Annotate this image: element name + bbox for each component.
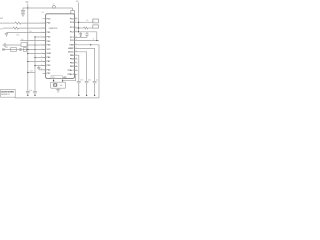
wire cross link y=72.5 [28,72,35,74]
wire +5V vertical x=27.8 [27,4,29,92]
box component (21,43.0) [21,43,27,47]
wire pin8 long row y=49.5 [2,49,46,51]
title block box [1,90,16,98]
wire pin20 row y=51.8 corner [78,52,87,81]
junction dot (78.8,95.4) [78,95,79,96]
wire pin10 row y=57.5 [35,57,46,59]
junction dot (35,57.5) [34,57,35,58]
svg-text:AREF: AREF [68,47,74,50]
wire box to U1 y=45.0 [27,44,46,46]
svg-text:27: 27 [75,21,77,23]
capacitor C at (35,92) [33,91,37,95]
wire +5V vertical x=78.5 [78,2,80,31]
wire vertical x=96.8 [96,32,98,41]
svg-text:100n: 100n [80,79,83,81]
U1 right pin numbers [75,18,77,72]
junction dot (94.6,95.4) [94,95,95,96]
junction dot (27.8,53.5) [27,53,28,54]
svg-text:22: 22 [75,44,77,46]
junction dot (27.8,49.5) [27,49,28,50]
wire RX row y=23.1 [3,22,15,24]
U1 right pins [75,19,78,74]
svg-text:28: 28 [75,18,77,20]
small box right edge (92.8,23.8) [93,25,99,28]
svg-text:GND: GND [69,44,74,46]
svg-text:5V: 5V [53,3,55,5]
circle component (20.5,49.5) [20,49,22,51]
wire pin21 row y=48.4 corner [78,48,95,81]
capacitor C at (27.8,92) [26,91,30,95]
svg-text:RESET/PC6: RESET/PC6 [49,28,58,30]
box component (23.5,47.6) [24,48,27,52]
svg-text:17: 17 [75,62,77,64]
svg-text:ARDUINO SEVERINO: ARDUINO SEVERINO [1,91,14,94]
svg-text:100n: 100n [16,34,20,36]
svg-text:PD2: PD2 [47,37,51,39]
svg-text:10k: 10k [86,20,88,22]
svg-text:10k: 10k [29,31,32,33]
U1 inner right pin labels [67,18,74,75]
capacitor at x=87 [85,32,88,38]
power node circle (54,6.9) [53,6,56,9]
svg-text:AVCC: AVCC [68,50,74,53]
svg-text:XT2: XT2 [63,77,66,79]
junction dot (35,37.0) [34,36,35,37]
svg-text:XTAL1: XTAL1 [67,69,74,72]
svg-text:23: 23 [75,39,77,41]
IC U1 body [46,14,75,79]
capacitor C at (78.8,82) [77,81,81,95]
svg-text:16M: 16M [60,85,64,87]
connector plates at x=3 [3,48,4,51]
svg-text:RX: RX [0,23,3,25]
U1 left pins [43,19,46,74]
svg-text:25: 25 [75,31,77,33]
svg-text:PC6: PC6 [47,18,51,20]
wire pin13 row y=69.8 [39,69,46,71]
junction dot (78.5,28.0) [78,27,79,28]
capacitor C at (86.6,82) [85,81,89,95]
wire XTAL2 to right pin [63,74,76,80]
junction dot (96.8,40.5) [96,40,97,41]
junction dot (53.6,80.7) [53,80,54,81]
wire R3 to box [88,27,93,29]
wire pin5 row y=37.0 [35,36,46,38]
wire pin11 row y=61.5 [28,61,46,63]
junction dot (62.6,80.7) [62,80,63,81]
junction dot (35,45.0) [34,44,35,45]
wire pin27 row y=22.3 to box [78,21,93,23]
svg-text:M1: M1 [0,18,3,20]
svg-text:VCC: VCC [47,49,52,51]
capacitor C at (23,11) [21,11,25,14]
svg-text:PD3: PD3 [47,41,51,43]
svg-text:PD7: PD7 [47,73,51,75]
capacitor C below wire at (10,34) [5,33,8,37]
junction dot at (27.8,8) [27,7,28,8]
resistor R1 zigzag [15,22,21,24]
junction dot (27.8,61.5) [27,61,28,62]
box component (10.5,47.7) [11,48,17,52]
junction dot (27.8,95.4) [27,95,28,96]
wire pin6 row y=40.6 [20,40,45,42]
junction dot (78.5,31.8) [78,31,79,32]
wire TX row y=28.1 [3,27,13,29]
U1 left pin numbers [41,18,43,71]
wire vertical x=35 [34,37,36,91]
svg-text:26: 26 [75,27,77,29]
wire pin7 row y=45.0 with series cap [2,43,21,46]
wire XTAL2 stub down [62,78,64,82]
svg-text:18: 18 [75,58,77,60]
wire branch left y=8 [23,8,28,10]
wire pin24 row y=37.4 [78,36,88,38]
svg-text:PD6: PD6 [47,69,51,71]
svg-text:XT1: XT1 [52,77,55,79]
wire R1 to U1 [21,22,46,24]
wire pin22 row y=44.8 long with corner [78,45,100,98]
wire pin19 row y=55.2 corner [78,55,79,81]
junction dot (78.5,22.3) [78,22,79,23]
LED D1 symbol at x=80.7 [80,32,82,38]
svg-text:PD0: PD0 [47,23,51,25]
capacitor C at (38.8,68) [37,66,40,70]
wire pin26 row y=28.0 [78,27,84,29]
wire pin12 row y=65.6 [35,65,46,67]
wire pin9 row y=53.5 [28,53,46,55]
crystal Q1 symbol [53,83,57,86]
svg-text:1: 1 [41,18,42,20]
svg-text:20: 20 [75,51,77,53]
wire pin4 row y=32.6 [6,32,45,34]
svg-text:IC1: IC1 [42,12,45,14]
svg-text:19: 19 [75,54,77,56]
wire pin25 row y=31.8 [78,31,97,33]
ground symbol (23,15) [21,14,25,16]
junction dot (35,65.6) [34,65,35,66]
wire ground stub [57,88,59,89]
junction dot (35,49.5) [34,49,35,50]
wire XTAL1 stub down [53,78,55,82]
svg-text:PB6: PB6 [47,57,51,59]
svg-text:24: 24 [75,36,77,38]
wire down into AVCC box [72,8,74,11]
svg-text:1k: 1k [93,38,95,40]
svg-text:XTAL2: XTAL2 [67,73,74,76]
svg-text:5V: 5V [26,2,29,4]
svg-text:GND: GND [47,53,52,55]
wire R2 to U1 [19,27,46,29]
svg-text:100n: 100n [88,79,91,81]
ground symbol (58.1,90.5) [56,90,60,92]
junction dot (86.6,95.4) [86,95,87,96]
U1 inner left pin labels [47,18,52,75]
junction dot (35,95.4) [34,95,35,96]
U1 XTAL1 label box [51,76,62,79]
svg-text:PB7: PB7 [47,61,51,63]
wire +5V horizontal y=8 [28,7,73,9]
svg-text:TX: TX [0,28,3,30]
svg-text:REVISION 2.0: REVISION 2.0 [1,94,9,96]
box at IC top (AVCC) [71,11,75,14]
svg-text:100n: 100n [30,71,33,73]
svg-text:16: 16 [75,65,77,67]
bottom rail line y=97.9 [15,97,99,99]
svg-text:10u: 10u [96,79,99,81]
svg-text:15: 15 [75,69,77,71]
capacitor C at (94.6,82) [93,81,97,95]
connector box right (92.8,19.0) [93,19,99,23]
crystal circuit box [51,82,66,88]
resistor R3 zigzag [84,27,88,29]
wire pin23 row y=40.5 [78,40,100,42]
svg-text:22p: 22p [21,39,24,41]
svg-text:100n: 100n [29,90,32,92]
junction dot (27.8,72.5) [27,72,28,73]
svg-text:21: 21 [75,47,77,49]
junction dot (90.7,44.8) [90,44,91,45]
resistor R2 zigzag [13,27,19,29]
svg-text:PWR: PWR [5,47,8,49]
